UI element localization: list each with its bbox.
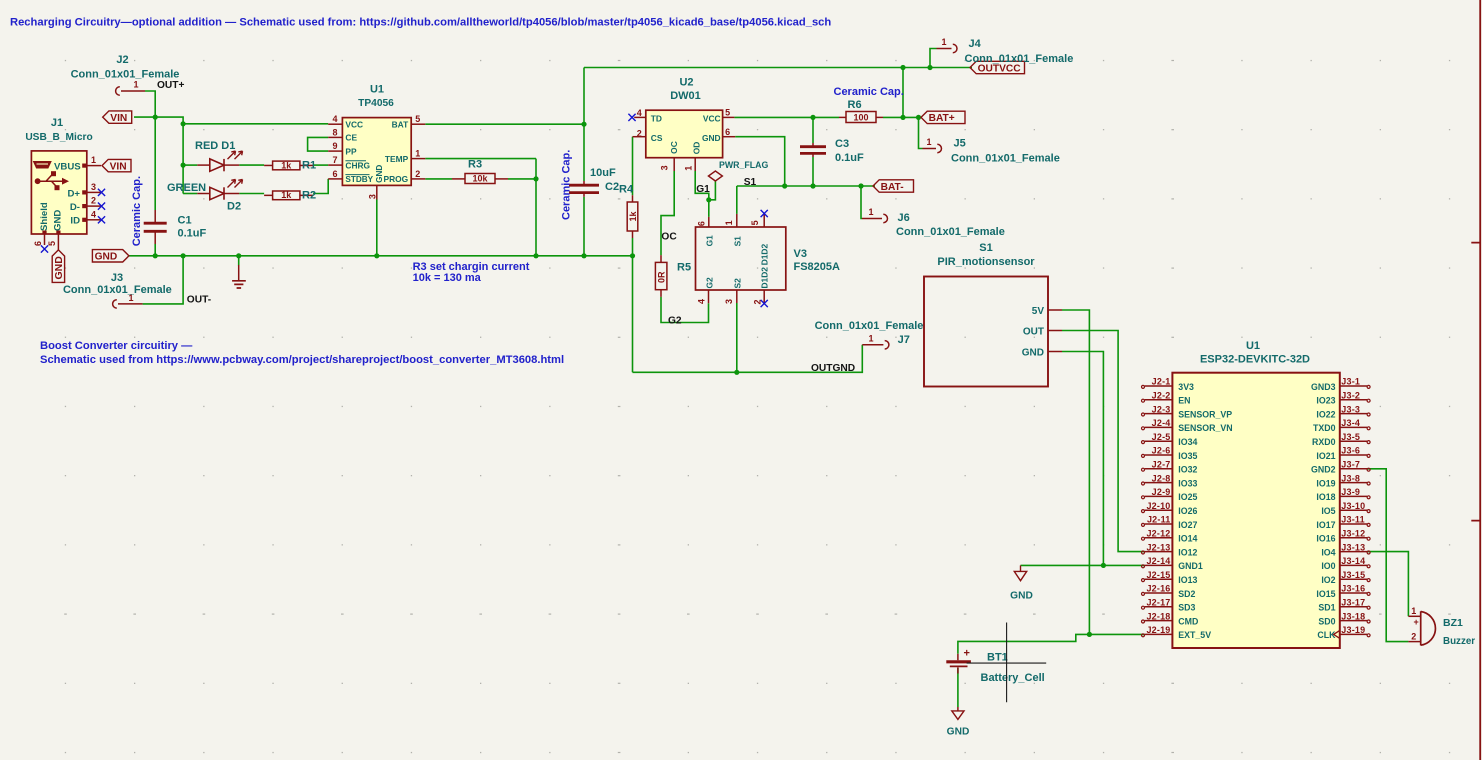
svg-text:J3-15: J3-15 xyxy=(1341,570,1365,580)
svg-text:3: 3 xyxy=(368,194,378,199)
svg-text:ID: ID xyxy=(70,216,80,227)
svg-text:J3-4: J3-4 xyxy=(1341,418,1360,428)
svg-text:J3-10: J3-10 xyxy=(1341,501,1365,511)
svg-text:Battery_Cell: Battery_Cell xyxy=(981,672,1045,684)
svg-text:BAT-: BAT- xyxy=(881,182,904,193)
svg-text:10k: 10k xyxy=(472,174,488,184)
svg-text:J3: J3 xyxy=(111,272,123,284)
svg-text:U2: U2 xyxy=(679,76,693,88)
svg-text:OUT: OUT xyxy=(1023,327,1044,338)
svg-text:VCC: VCC xyxy=(703,114,721,124)
svg-text:6: 6 xyxy=(697,221,707,226)
svg-text:GREEN: GREEN xyxy=(167,182,206,194)
svg-text:IO17: IO17 xyxy=(1316,520,1335,530)
svg-text:J3-18: J3-18 xyxy=(1341,611,1365,621)
svg-text:Ceramic Cap.: Ceramic Cap. xyxy=(131,176,143,246)
svg-text:CE: CE xyxy=(345,133,357,143)
svg-text:STDBY: STDBY xyxy=(345,175,373,184)
svg-text:R1: R1 xyxy=(302,160,316,172)
svg-text:J3-19: J3-19 xyxy=(1341,625,1365,635)
svg-text:4: 4 xyxy=(332,114,337,124)
svg-text:IO0: IO0 xyxy=(1321,561,1335,571)
svg-text:1: 1 xyxy=(1411,606,1416,616)
svg-text:J2-11: J2-11 xyxy=(1147,515,1171,525)
svg-text:GND: GND xyxy=(53,210,64,231)
svg-text:BZ1: BZ1 xyxy=(1443,617,1463,629)
svg-text:C2: C2 xyxy=(605,181,619,193)
svg-text:IO23: IO23 xyxy=(1316,396,1335,406)
svg-text:10k = 130 ma: 10k = 130 ma xyxy=(413,272,482,284)
svg-text:SENSOR_VN: SENSOR_VN xyxy=(1178,423,1232,433)
svg-text:SD2: SD2 xyxy=(1178,589,1195,599)
svg-text:J2-12: J2-12 xyxy=(1146,529,1170,539)
svg-text:Ceramic Cap.: Ceramic Cap. xyxy=(561,150,573,220)
svg-text:J5: J5 xyxy=(954,138,966,150)
svg-text:G2: G2 xyxy=(668,316,682,327)
svg-text:0.1uF: 0.1uF xyxy=(835,152,864,164)
svg-text:IO21: IO21 xyxy=(1316,451,1335,461)
svg-text:J3-17: J3-17 xyxy=(1341,598,1365,608)
svg-text:2: 2 xyxy=(637,128,642,138)
svg-text:RED D1: RED D1 xyxy=(195,140,235,152)
svg-text:V3: V3 xyxy=(794,248,807,260)
svg-text:J3-12: J3-12 xyxy=(1341,529,1365,539)
svg-text:R5: R5 xyxy=(677,262,691,274)
svg-text:+: + xyxy=(964,648,970,660)
svg-text:Recharging Circuitry—optional: Recharging Circuitry—optional addition —… xyxy=(10,17,831,29)
svg-text:IO2: IO2 xyxy=(1321,575,1335,585)
svg-text:IO32: IO32 xyxy=(1178,465,1197,475)
svg-text:1: 1 xyxy=(415,149,420,159)
svg-text:4: 4 xyxy=(697,299,707,304)
svg-text:J3-8: J3-8 xyxy=(1341,473,1360,483)
svg-text:GND: GND xyxy=(95,252,118,263)
svg-text:IO13: IO13 xyxy=(1178,575,1197,585)
svg-text:IO14: IO14 xyxy=(1178,534,1197,544)
svg-text:1: 1 xyxy=(926,137,931,147)
svg-text:J2-5: J2-5 xyxy=(1152,432,1171,442)
svg-text:J3-16: J3-16 xyxy=(1341,584,1365,594)
svg-text:TXD0: TXD0 xyxy=(1313,423,1336,433)
svg-text:J2: J2 xyxy=(116,54,128,66)
svg-text:Conn_01x01_Female: Conn_01x01_Female xyxy=(896,226,1005,238)
svg-text:PP: PP xyxy=(345,146,357,156)
svg-text:RXD0: RXD0 xyxy=(1312,437,1336,447)
svg-text:IO35: IO35 xyxy=(1178,451,1197,461)
svg-text:1k: 1k xyxy=(281,160,292,170)
svg-text:10uF: 10uF xyxy=(590,167,616,179)
svg-text:FS8205A: FS8205A xyxy=(794,261,841,273)
svg-text:7: 7 xyxy=(332,155,337,165)
svg-text:VIN: VIN xyxy=(110,161,127,172)
svg-text:Conn_01x01_Female: Conn_01x01_Female xyxy=(63,284,172,296)
svg-text:J2-18: J2-18 xyxy=(1146,611,1170,621)
svg-text:D1D2: D1D2 xyxy=(759,267,769,289)
svg-text:IO22: IO22 xyxy=(1316,409,1335,419)
svg-text:J4: J4 xyxy=(969,38,982,50)
svg-text:J3-6: J3-6 xyxy=(1341,446,1360,456)
svg-text:BT1: BT1 xyxy=(987,652,1008,664)
svg-text:IO25: IO25 xyxy=(1178,492,1197,502)
svg-text:J2-6: J2-6 xyxy=(1152,446,1171,456)
svg-text:IO34: IO34 xyxy=(1178,437,1197,447)
svg-text:PROG: PROG xyxy=(384,174,409,184)
svg-text:CS: CS xyxy=(651,133,663,143)
svg-text:2: 2 xyxy=(91,196,96,206)
svg-text:2: 2 xyxy=(415,169,420,179)
svg-text:J2-17: J2-17 xyxy=(1146,598,1170,608)
svg-text:PWR_FLAG: PWR_FLAG xyxy=(719,160,769,170)
svg-text:3: 3 xyxy=(660,165,670,170)
svg-text:OD: OD xyxy=(691,142,701,155)
svg-text:J2-8: J2-8 xyxy=(1152,473,1171,483)
svg-text:0.1uF: 0.1uF xyxy=(178,228,207,240)
svg-text:GND1: GND1 xyxy=(1178,561,1203,571)
svg-text:OC: OC xyxy=(661,232,677,243)
svg-text:C1: C1 xyxy=(178,215,192,227)
svg-text:Conn_01x01_Female: Conn_01x01_Female xyxy=(71,69,180,81)
svg-text:J2-7: J2-7 xyxy=(1152,460,1171,470)
svg-text:S1: S1 xyxy=(733,236,743,247)
svg-text:5: 5 xyxy=(750,220,760,225)
svg-text:VBUS: VBUS xyxy=(54,161,81,172)
svg-text:6: 6 xyxy=(332,169,337,179)
svg-text:USB_B_Micro: USB_B_Micro xyxy=(25,132,92,143)
svg-text:CHRG: CHRG xyxy=(345,160,370,170)
svg-text:PIR_motionsensor: PIR_motionsensor xyxy=(937,256,1035,268)
svg-text:G1: G1 xyxy=(705,235,715,247)
svg-text:Conn_01x01_Female: Conn_01x01_Female xyxy=(951,153,1060,165)
svg-text:4: 4 xyxy=(91,209,96,219)
svg-text:OUTGND: OUTGND xyxy=(811,363,855,374)
svg-text:J2-14: J2-14 xyxy=(1146,556,1170,566)
svg-text:TP4056: TP4056 xyxy=(358,98,394,109)
svg-text:R2: R2 xyxy=(302,190,316,202)
svg-text:6: 6 xyxy=(725,127,730,137)
svg-text:Boost Converter circuitiry —: Boost Converter circuitiry — xyxy=(40,340,193,352)
svg-text:J2-1: J2-1 xyxy=(1152,377,1171,387)
svg-text:4: 4 xyxy=(637,108,642,118)
svg-text:SD1: SD1 xyxy=(1318,603,1335,613)
svg-text:GND2: GND2 xyxy=(1311,465,1336,475)
svg-text:VCC: VCC xyxy=(345,120,363,130)
svg-text:Buzzer: Buzzer xyxy=(1443,636,1475,647)
svg-text:S1: S1 xyxy=(979,242,992,254)
svg-text:+: + xyxy=(1414,617,1419,627)
svg-text:IO5: IO5 xyxy=(1321,506,1335,516)
svg-text:GND: GND xyxy=(53,256,65,280)
svg-text:D2: D2 xyxy=(227,201,241,213)
svg-text:J2-9: J2-9 xyxy=(1152,487,1171,497)
svg-text:R6: R6 xyxy=(848,99,862,111)
svg-text:J3-14: J3-14 xyxy=(1341,556,1365,566)
svg-text:TD: TD xyxy=(651,114,662,124)
svg-text:D1D2: D1D2 xyxy=(759,244,769,266)
svg-text:GND: GND xyxy=(1010,591,1033,602)
svg-text:9: 9 xyxy=(332,141,337,151)
svg-text:DW01: DW01 xyxy=(670,90,701,102)
svg-text:1: 1 xyxy=(724,220,734,225)
svg-text:CLK: CLK xyxy=(1317,630,1336,640)
svg-text:J3-1: J3-1 xyxy=(1341,377,1360,387)
svg-text:1: 1 xyxy=(684,166,694,171)
svg-text:IO4: IO4 xyxy=(1321,547,1335,557)
svg-text:IO27: IO27 xyxy=(1178,520,1197,530)
svg-text:R4: R4 xyxy=(619,184,634,196)
svg-text:EN: EN xyxy=(1178,396,1190,406)
svg-text:D-: D- xyxy=(70,202,80,213)
svg-text:Conn_01x01_Female: Conn_01x01_Female xyxy=(965,53,1074,65)
svg-text:CMD: CMD xyxy=(1178,616,1198,626)
svg-text:2: 2 xyxy=(1411,632,1416,642)
svg-text:100: 100 xyxy=(853,112,868,122)
svg-text:IO16: IO16 xyxy=(1316,534,1335,544)
svg-text:C3: C3 xyxy=(835,138,849,150)
svg-text:GND: GND xyxy=(375,165,384,183)
svg-text:Schematic used from https://ww: Schematic used from https://www.pcbway.c… xyxy=(40,354,564,366)
svg-text:EXT_5V: EXT_5V xyxy=(1178,630,1211,640)
svg-text:IO26: IO26 xyxy=(1178,506,1197,516)
svg-text:6: 6 xyxy=(33,241,43,246)
svg-text:IO18: IO18 xyxy=(1316,492,1335,502)
svg-text:J2-13: J2-13 xyxy=(1146,542,1170,552)
svg-text:GND: GND xyxy=(947,727,970,738)
svg-text:1k: 1k xyxy=(628,211,638,222)
svg-text:VIN: VIN xyxy=(110,113,127,124)
svg-text:1: 1 xyxy=(133,80,138,90)
svg-text:BAT+: BAT+ xyxy=(929,113,955,124)
svg-text:1: 1 xyxy=(91,155,96,165)
svg-text:IO33: IO33 xyxy=(1178,478,1197,488)
svg-text:J3-9: J3-9 xyxy=(1341,487,1360,497)
svg-text:G1: G1 xyxy=(696,184,710,195)
svg-text:J3-7: J3-7 xyxy=(1341,460,1360,470)
svg-text:D+: D+ xyxy=(67,188,80,199)
svg-text:J1: J1 xyxy=(51,117,63,129)
svg-text:SD0: SD0 xyxy=(1318,616,1335,626)
svg-text:U1: U1 xyxy=(1246,340,1260,352)
svg-text:8: 8 xyxy=(332,127,337,137)
svg-text:1: 1 xyxy=(941,37,946,47)
svg-text:Conn_01x01_Female: Conn_01x01_Female xyxy=(815,320,924,332)
svg-text:1: 1 xyxy=(868,207,873,217)
svg-text:J2-4: J2-4 xyxy=(1152,418,1171,428)
svg-text:OUT+: OUT+ xyxy=(157,80,185,91)
svg-text:3: 3 xyxy=(724,299,734,304)
svg-text:J2-2: J2-2 xyxy=(1152,391,1171,401)
svg-text:BAT: BAT xyxy=(392,120,409,130)
svg-text:OC: OC xyxy=(669,141,679,154)
svg-text:J3-13: J3-13 xyxy=(1341,542,1365,552)
svg-text:J2-15: J2-15 xyxy=(1146,570,1170,580)
svg-text:Shield: Shield xyxy=(39,202,50,231)
svg-text:3: 3 xyxy=(91,182,96,192)
svg-text:G2: G2 xyxy=(705,277,715,289)
svg-text:IO19: IO19 xyxy=(1316,478,1335,488)
svg-text:R3: R3 xyxy=(468,159,482,171)
svg-text:SENSOR_VP: SENSOR_VP xyxy=(1178,409,1232,419)
svg-text:J3-11: J3-11 xyxy=(1341,515,1365,525)
svg-text:J2-3: J2-3 xyxy=(1152,404,1171,414)
svg-text:J6: J6 xyxy=(898,212,910,224)
svg-text:J3-3: J3-3 xyxy=(1341,404,1360,414)
svg-text:GND: GND xyxy=(702,133,721,143)
svg-text:S2: S2 xyxy=(733,278,743,289)
svg-text:1: 1 xyxy=(868,334,873,344)
svg-text:GND: GND xyxy=(1022,348,1044,359)
svg-text:Ceramic Cap.: Ceramic Cap. xyxy=(834,86,904,98)
svg-text:J3-2: J3-2 xyxy=(1341,391,1360,401)
svg-text:J2-19: J2-19 xyxy=(1146,625,1170,635)
svg-text:J2-16: J2-16 xyxy=(1146,584,1170,594)
svg-text:5: 5 xyxy=(725,108,730,118)
svg-text:2: 2 xyxy=(753,299,763,304)
svg-text:SD3: SD3 xyxy=(1178,603,1195,613)
svg-text:1k: 1k xyxy=(281,190,292,200)
svg-text:5: 5 xyxy=(415,114,420,124)
svg-text:J7: J7 xyxy=(898,334,910,346)
svg-text:IO15: IO15 xyxy=(1316,589,1335,599)
svg-text:0R: 0R xyxy=(657,271,667,283)
svg-text:3V3: 3V3 xyxy=(1178,382,1194,392)
svg-text:ESP32-DEVKITC-32D: ESP32-DEVKITC-32D xyxy=(1200,353,1310,365)
svg-text:S1: S1 xyxy=(744,177,757,188)
svg-text:J2-10: J2-10 xyxy=(1146,501,1170,511)
svg-text:GND3: GND3 xyxy=(1311,382,1336,392)
svg-text:U1: U1 xyxy=(370,84,384,96)
svg-text:OUT-: OUT- xyxy=(187,295,211,306)
svg-text:5V: 5V xyxy=(1032,306,1045,317)
svg-text:IO12: IO12 xyxy=(1178,547,1197,557)
svg-text:5: 5 xyxy=(47,241,57,246)
svg-text:TEMP: TEMP xyxy=(385,154,409,164)
svg-text:J3-5: J3-5 xyxy=(1341,432,1360,442)
